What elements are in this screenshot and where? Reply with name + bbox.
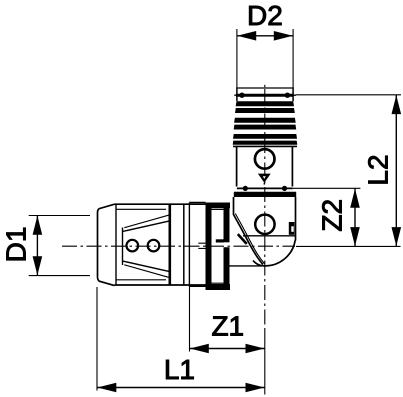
- svg-text:Z2: Z2: [317, 199, 348, 232]
- clamp top cap: [206, 203, 231, 209]
- clamp left post: [206, 203, 212, 291]
- svg-text:L2: L2: [363, 154, 394, 185]
- bolt block: [216, 239, 224, 242]
- fillet thick segment: [238, 234, 247, 244]
- vertical pipe top outline: [237, 87, 293, 89]
- small circle 1: [127, 240, 139, 252]
- vertical centerline: [264, 85, 266, 87]
- bolt mid lines: [212, 209, 224, 283]
- rib band 2: [235, 108, 295, 113]
- clip detail: [289, 222, 295, 235]
- seal band A: [237, 187, 293, 189]
- chord line: [243, 235, 295, 237]
- clamp right post lower: [224, 247, 230, 290]
- pipe top seal band: [234, 94, 296, 96]
- rib band 6: [233, 141, 298, 145]
- clamp bottom cap: [206, 284, 231, 290]
- pipe walls: [237, 147, 293, 187]
- fillet curve A: [234, 215, 264, 265]
- rib band 4: [234, 125, 297, 130]
- fillet curve B: [235, 214, 264, 264]
- svg-text:Z1: Z1: [211, 311, 244, 342]
- rib section bottom line: [233, 145, 297, 147]
- window trapezoid: [123, 221, 170, 271]
- small circle 2: [148, 240, 160, 252]
- elbow body left edge: [233, 197, 235, 215]
- elbow dome: [253, 240, 295, 266]
- svg-text:L1: L1: [164, 354, 195, 385]
- circle C (upper screw): [255, 149, 275, 169]
- bolt ledge lines: [198, 243, 205, 248]
- left fitting outer shell: [98, 204, 115, 285]
- clamp right post upper: [224, 203, 230, 243]
- rib band 5: [233, 134, 297, 139]
- circle D (lower screw): [255, 215, 274, 234]
- inner shell lines: [117, 209, 167, 279]
- elbow cap band B: [234, 192, 296, 197]
- flow direction triangle: [258, 174, 271, 183]
- elbow body right edge: [295, 197, 297, 241]
- sleeve edge: [115, 204, 117, 285]
- horizontal centerline: [62, 245, 295, 247]
- rib band 3: [234, 118, 296, 123]
- collar lines: [169, 204, 172, 285]
- rib band 1: [236, 101, 294, 106]
- svg-text:D1: D1: [0, 227, 31, 263]
- elbow bottom line: [226, 265, 262, 267]
- svg-text:D2: D2: [247, 0, 283, 31]
